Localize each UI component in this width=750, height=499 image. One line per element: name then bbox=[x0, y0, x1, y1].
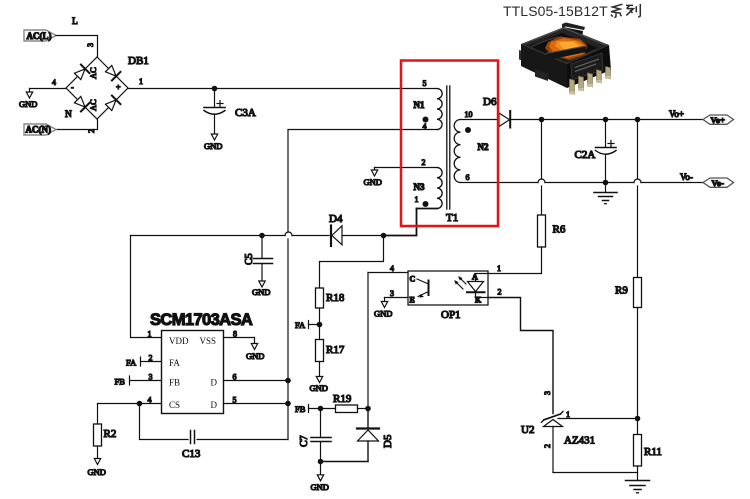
svg-text:FB: FB bbox=[115, 377, 126, 387]
svg-text:GND: GND bbox=[311, 482, 329, 492]
svg-text:Vo-: Vo- bbox=[712, 178, 725, 188]
transformer T1 core bbox=[446, 86, 448, 209]
svg-text:R11: R11 bbox=[644, 446, 662, 458]
OP1 LED bbox=[467, 273, 488, 305]
svg-text:+: + bbox=[116, 83, 121, 92]
svg-text:6: 6 bbox=[233, 373, 237, 382]
ground (C7) bbox=[311, 462, 329, 493]
node junction C3A bbox=[212, 86, 218, 92]
svg-text:U2: U2 bbox=[521, 424, 534, 436]
pin 6 wire D bbox=[224, 373, 291, 384]
node FA junction bbox=[317, 322, 323, 328]
wire x288 continues below hop bbox=[287, 239, 289, 440]
resistor R19 bbox=[336, 405, 358, 413]
pin 5 wire D bbox=[224, 396, 291, 407]
pins row bbox=[570, 66, 611, 94]
svg-text:AC(N): AC(N) bbox=[26, 125, 52, 135]
svg-text:R9: R9 bbox=[615, 285, 628, 297]
core clip highlights bbox=[531, 37, 558, 47]
svg-text:AZ431: AZ431 bbox=[564, 435, 595, 447]
net stub FB + R19 bbox=[295, 404, 336, 414]
svg-text:R18: R18 bbox=[326, 292, 345, 304]
dark tape band across coil bbox=[546, 46, 587, 60]
diode D6 (points right) bbox=[499, 111, 510, 128]
ground (bridge left) bbox=[19, 89, 37, 110]
svg-text:AC: AC bbox=[88, 99, 98, 111]
svg-text:TTLS05-15B12T: TTLS05-15B12T bbox=[503, 3, 608, 19]
transformer T1 N1 winding bbox=[414, 79, 443, 131]
IC U1 SCM1703ASA box bbox=[162, 331, 224, 414]
pin 8 wire VSS to gnd bbox=[224, 330, 265, 362]
wire AC(L) to bridge top bbox=[56, 36, 98, 58]
svg-text:DB1: DB1 bbox=[128, 55, 149, 67]
svg-text:C13: C13 bbox=[182, 448, 201, 460]
svg-text:3: 3 bbox=[390, 289, 394, 298]
svg-text:D: D bbox=[211, 400, 218, 410]
wire R6 to OP1 pin1 bbox=[488, 247, 542, 274]
svg-text:L: L bbox=[72, 17, 78, 27]
OP1 pin 3 wire to gnd bbox=[374, 289, 408, 319]
svg-text:4: 4 bbox=[52, 78, 56, 87]
connector AC(N) bbox=[24, 124, 56, 135]
svg-text:1: 1 bbox=[497, 264, 501, 273]
svg-text:GND: GND bbox=[204, 141, 222, 151]
resistor R17 bbox=[316, 340, 324, 362]
pin 4 wire CS bbox=[98, 396, 162, 407]
resistor R11 bbox=[634, 435, 642, 467]
svg-text:2: 2 bbox=[422, 158, 426, 167]
svg-text:C7: C7 bbox=[299, 435, 310, 447]
OP1 pin 4 wire bbox=[368, 264, 408, 273]
diode bottom-left of DB1 bbox=[73, 95, 89, 111]
wire to N3 pin1 bbox=[384, 209, 417, 236]
svg-text:T1: T1 bbox=[446, 212, 458, 224]
inner window frame bbox=[529, 33, 598, 61]
wire hop over x288 bbox=[285, 232, 292, 235]
svg-text:D6: D6 bbox=[483, 96, 497, 108]
svg-text:R17: R17 bbox=[326, 344, 345, 356]
ground (C5) bbox=[252, 281, 270, 297]
svg-text:8: 8 bbox=[233, 330, 237, 339]
svg-text:-: - bbox=[71, 83, 74, 92]
label plate bbox=[571, 53, 603, 80]
node junction C5 bbox=[259, 233, 265, 239]
wire C7/D5 bottom bbox=[321, 461, 369, 463]
front-right face bbox=[567, 45, 611, 88]
optocoupler OP1 box bbox=[408, 271, 488, 305]
svg-text:4: 4 bbox=[423, 122, 427, 131]
svg-text:GND: GND bbox=[246, 351, 264, 361]
earth ground (R11) bbox=[626, 466, 650, 493]
svg-text:6: 6 bbox=[466, 173, 470, 182]
resistor R6 bbox=[538, 215, 546, 247]
wire R17 to gnd bbox=[319, 362, 321, 377]
resistor R2 bbox=[94, 404, 102, 459]
svg-text:R6: R6 bbox=[553, 224, 566, 236]
wire D4 node down to R18 bbox=[320, 236, 384, 289]
svg-text:10: 10 bbox=[465, 110, 473, 119]
svg-text:Vo+: Vo+ bbox=[711, 115, 726, 125]
wire Vo+ rail bbox=[510, 119, 703, 121]
svg-text:5: 5 bbox=[233, 396, 237, 405]
svg-text:FA: FA bbox=[169, 358, 180, 368]
svg-text:SCM1703ASA: SCM1703ASA bbox=[150, 311, 253, 329]
wire N2 pin10 to D6 bbox=[461, 119, 500, 121]
connector Vo+ bbox=[703, 115, 734, 125]
svg-text:2: 2 bbox=[149, 354, 153, 363]
svg-text:Vo-: Vo- bbox=[680, 172, 693, 182]
red highlight box around T1 bbox=[401, 61, 498, 227]
ground (N3 pin2) bbox=[364, 168, 382, 188]
top rim highlight bbox=[523, 28, 606, 45]
svg-text:N1: N1 bbox=[414, 100, 425, 110]
svg-text:N2: N2 bbox=[478, 142, 489, 152]
pin 2 wire FA bbox=[126, 354, 162, 368]
svg-text:1: 1 bbox=[566, 410, 570, 419]
svg-text:FB: FB bbox=[295, 404, 306, 414]
shunt regulator U2 AZ431 bbox=[542, 412, 638, 473]
wire Vo- rail from N2 pin6 bbox=[461, 182, 539, 184]
svg-text:2: 2 bbox=[87, 129, 96, 133]
orange coil bbox=[545, 37, 587, 61]
ground (R17) bbox=[310, 377, 328, 394]
front-left face bbox=[521, 44, 567, 88]
svg-text:E: E bbox=[410, 296, 415, 305]
svg-text:GND: GND bbox=[374, 309, 392, 319]
CJK 系 bbox=[611, 4, 623, 17]
diode top-left of DB1 bbox=[73, 65, 89, 81]
svg-text:FB: FB bbox=[169, 378, 180, 388]
svg-text:5: 5 bbox=[423, 79, 427, 88]
wire node up to OP1 pin4 bbox=[367, 273, 369, 409]
wire D4 rail bbox=[131, 235, 286, 237]
svg-text:C2A: C2A bbox=[575, 149, 596, 161]
svg-text:D5: D5 bbox=[382, 434, 394, 448]
wire R9 branch bbox=[637, 120, 639, 180]
IC pin names bbox=[169, 336, 218, 410]
svg-text:R19: R19 bbox=[333, 393, 352, 405]
diode top-right of DB1 bbox=[104, 64, 120, 80]
svg-text:OP1: OP1 bbox=[441, 309, 461, 321]
svg-text:AC(L): AC(L) bbox=[27, 31, 52, 41]
wire N3 pin2 to gnd bbox=[375, 167, 438, 169]
svg-text:2: 2 bbox=[543, 444, 552, 448]
top face bbox=[521, 27, 609, 64]
svg-text:4: 4 bbox=[390, 264, 394, 273]
svg-text:3: 3 bbox=[86, 43, 95, 47]
wire R9 to R11 bbox=[637, 308, 639, 435]
photo of TTLS transformer bbox=[519, 23, 611, 95]
diode D5 (points up) bbox=[357, 409, 379, 462]
svg-text:CS: CS bbox=[169, 400, 180, 410]
transformer T1 N3 winding bbox=[414, 158, 443, 209]
ground (C3A) bbox=[204, 134, 222, 151]
svg-text:4: 4 bbox=[148, 396, 152, 405]
CJK 列 bbox=[626, 4, 640, 17]
svg-text:VDD: VDD bbox=[169, 336, 189, 346]
wire N1 pin4 left and down bbox=[288, 130, 437, 233]
svg-text:C5: C5 bbox=[244, 253, 255, 265]
capacitor C5 bbox=[254, 236, 273, 282]
svg-text:Vo+: Vo+ bbox=[669, 109, 684, 119]
svg-text:VSS: VSS bbox=[200, 336, 217, 346]
wire C13 bottom bbox=[140, 404, 189, 440]
resistor R9 bbox=[634, 278, 642, 308]
svg-text:FA: FA bbox=[295, 320, 306, 330]
svg-text:FA: FA bbox=[126, 358, 137, 368]
svg-text:GND: GND bbox=[252, 287, 270, 297]
svg-text:3: 3 bbox=[149, 373, 153, 382]
wire bridge bottom to AC(N) bbox=[56, 119, 98, 130]
diode D4 (points left) bbox=[331, 226, 384, 247]
OP1 light arrows bbox=[454, 276, 466, 289]
OP1 phototransistor bbox=[410, 275, 429, 305]
back fin bbox=[562, 23, 585, 31]
svg-text:D4: D4 bbox=[329, 213, 343, 225]
diode bottom-right of DB1 bbox=[104, 96, 120, 112]
svg-text:C3A: C3A bbox=[235, 107, 256, 119]
svg-text:2: 2 bbox=[498, 288, 502, 297]
svg-text:R2: R2 bbox=[104, 428, 117, 440]
svg-text:D: D bbox=[211, 378, 218, 388]
bottom-left foot bbox=[535, 69, 548, 81]
pin 3 wire FB bbox=[115, 373, 162, 387]
svg-text:GND: GND bbox=[310, 383, 328, 393]
svg-text:N3: N3 bbox=[414, 182, 425, 192]
connector AC(L) bbox=[24, 30, 56, 41]
OP1 pin 2 wire to U2 bbox=[488, 288, 553, 414]
left tab bbox=[519, 50, 533, 64]
wire R18 to R17 bbox=[319, 308, 321, 340]
wire pin1-vdd vertical bbox=[131, 236, 162, 338]
svg-text:1: 1 bbox=[415, 195, 419, 204]
svg-text:AC: AC bbox=[88, 67, 98, 79]
wire main rail bridge to transformer N1 pin5 bbox=[128, 88, 437, 90]
net stub FA bbox=[295, 320, 320, 330]
earth ground (C2A) bbox=[594, 183, 617, 204]
capacitor C3A bbox=[204, 89, 225, 135]
svg-text:1: 1 bbox=[148, 330, 152, 339]
svg-text:K: K bbox=[475, 296, 482, 305]
svg-text:GND: GND bbox=[364, 177, 382, 187]
svg-text:GND: GND bbox=[88, 467, 106, 477]
capacitor C13 bbox=[191, 431, 195, 444]
wire N3 pin1 bbox=[417, 208, 438, 210]
svg-text:C: C bbox=[410, 275, 416, 284]
wire R19 to D5 node bbox=[358, 408, 369, 410]
svg-text:GND: GND bbox=[19, 99, 37, 109]
capacitor C2A bbox=[596, 120, 617, 183]
wire R6 branch bbox=[541, 120, 543, 180]
wire bridge left to GND bbox=[30, 88, 67, 90]
ground (R2) bbox=[88, 459, 106, 478]
connector Vo- bbox=[703, 178, 734, 188]
resistor R18 bbox=[316, 288, 324, 308]
capacitor C7 bbox=[311, 409, 331, 462]
transformer T1 N2 winding bbox=[454, 110, 489, 183]
svg-text:1: 1 bbox=[139, 77, 143, 86]
svg-text:3: 3 bbox=[543, 391, 552, 395]
node junction right of D4 bbox=[381, 233, 387, 239]
svg-text:N: N bbox=[65, 110, 72, 120]
bridge rectifier DB1 bbox=[66, 57, 128, 119]
